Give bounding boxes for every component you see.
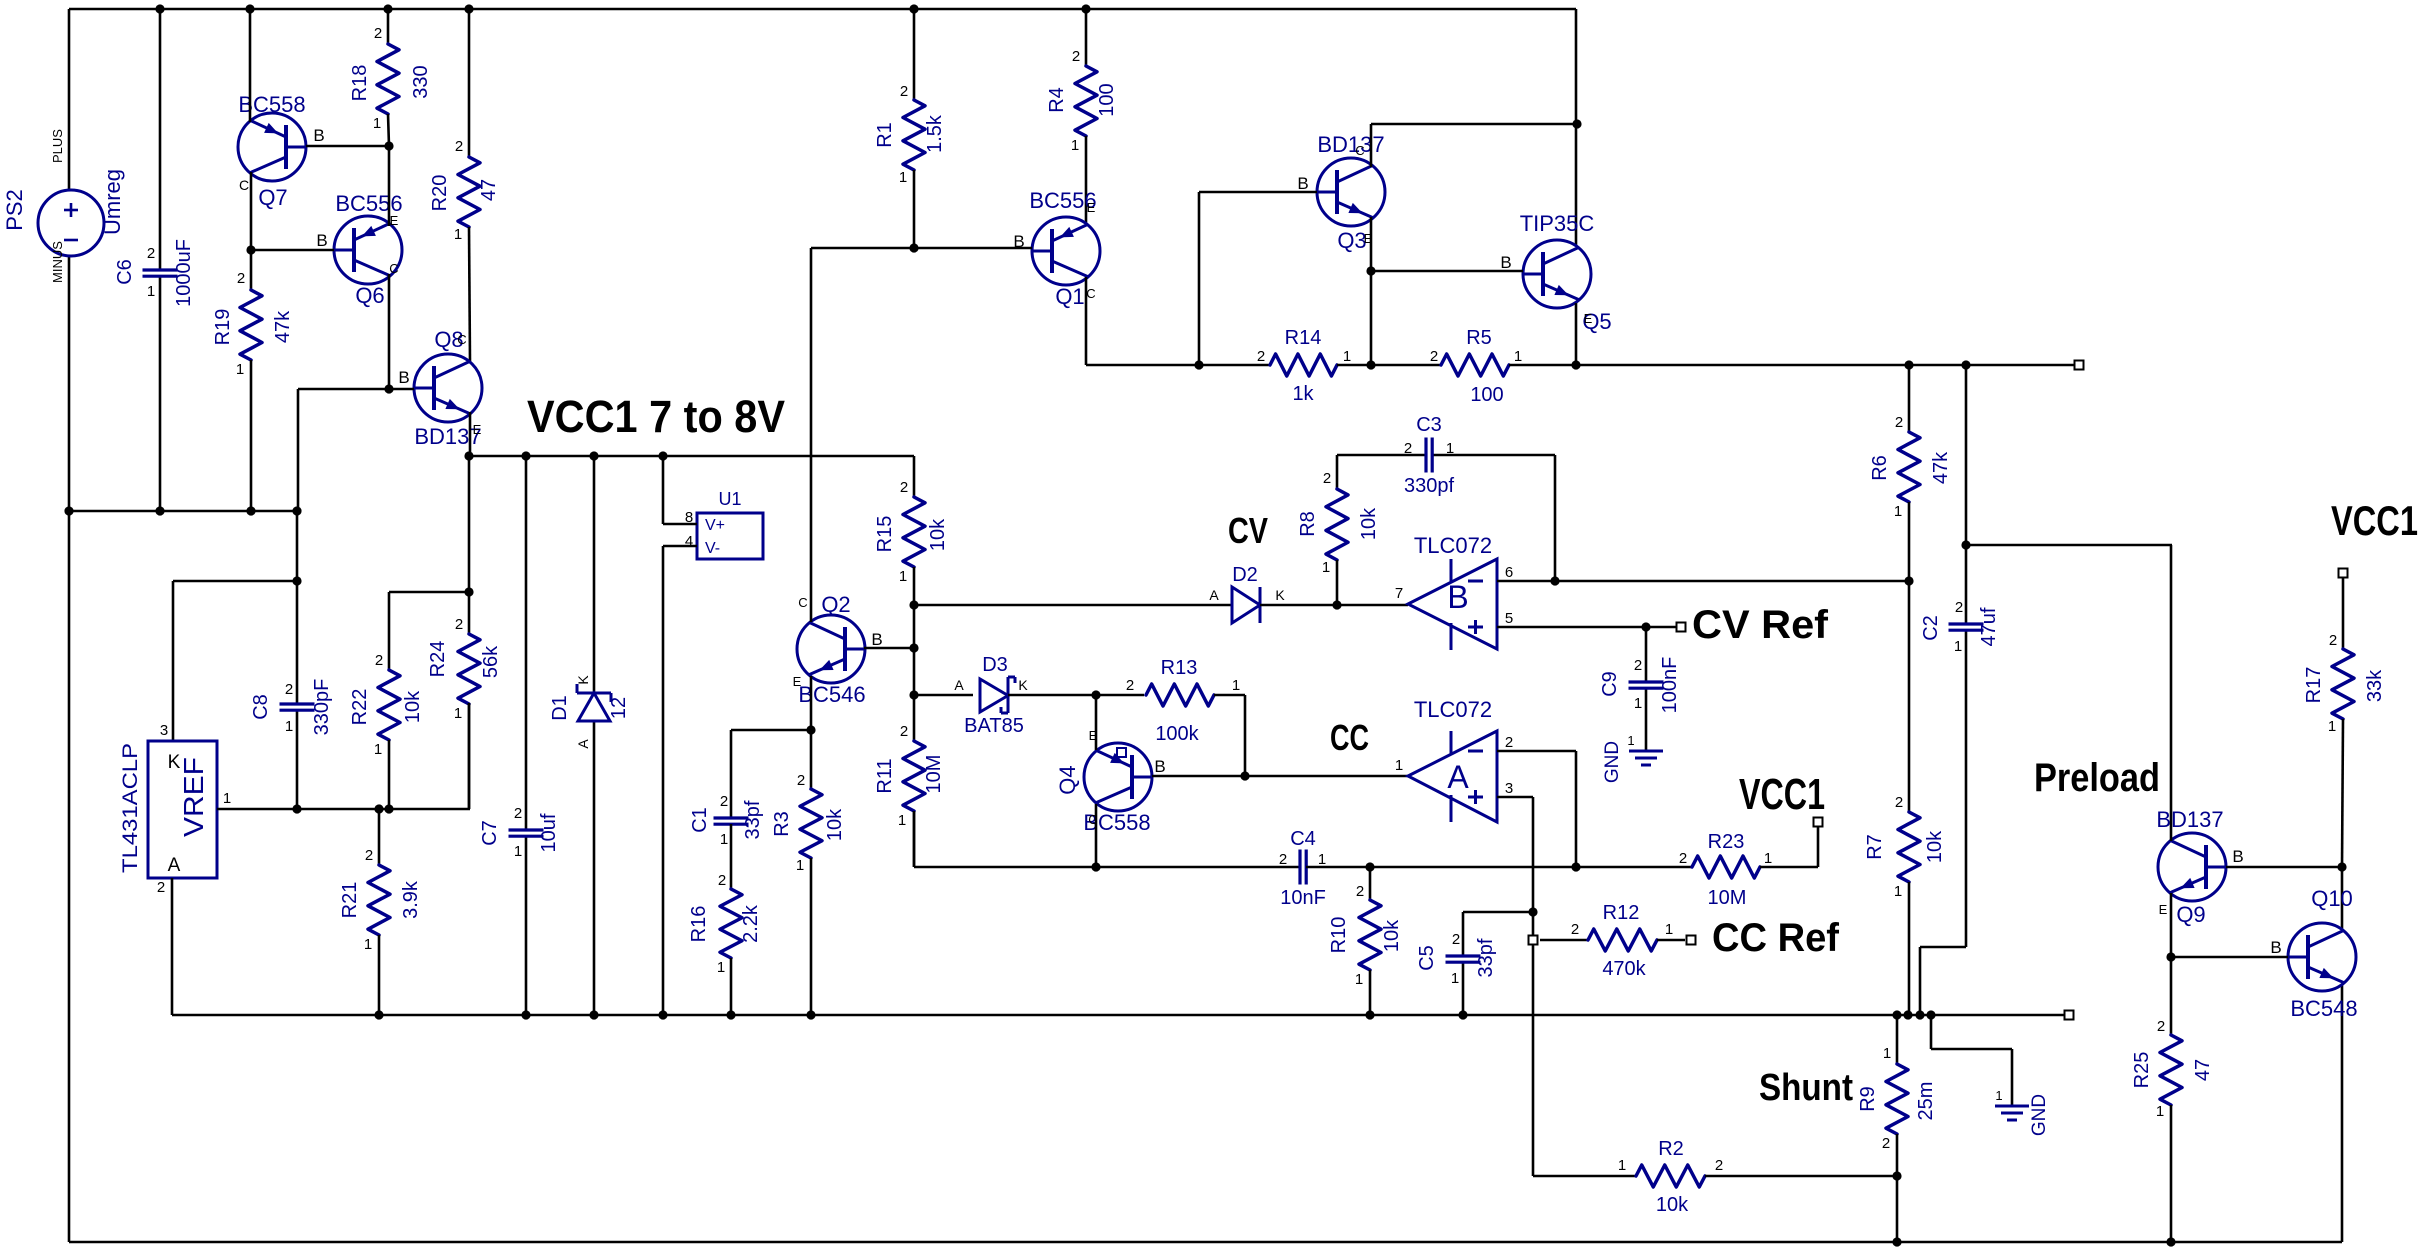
wire Q4 emitter up xyxy=(1095,695,1098,750)
svg-text:2: 2 xyxy=(1895,414,1903,431)
svg-text:BD137: BD137 xyxy=(1317,132,1384,157)
wire Q9 base xyxy=(2226,866,2342,869)
svg-text:3: 3 xyxy=(160,722,168,739)
transistor Q3 BD137 (NPN) xyxy=(1297,132,1385,253)
wire C8 column 511-581 xyxy=(296,511,299,581)
junction top rail Q7e xyxy=(245,4,254,13)
svg-text:B: B xyxy=(1297,174,1308,193)
ground GND (shunt) xyxy=(1995,1088,2050,1136)
wire opamp B pin6 net xyxy=(1497,580,1909,583)
svg-text:1000uF: 1000uF xyxy=(173,239,195,307)
svg-text:33k: 33k xyxy=(2364,669,2386,702)
junction R22/R24 split xyxy=(464,587,473,596)
svg-text:C2: C2 xyxy=(1920,615,1942,641)
svg-text:CC: CC xyxy=(1330,717,1369,758)
resistor R2 10k xyxy=(1618,1138,1723,1216)
svg-text:K: K xyxy=(1275,587,1285,603)
junction Q9e/Q10 base xyxy=(2166,952,2175,961)
svg-text:U1: U1 xyxy=(718,489,741,509)
svg-text:E: E xyxy=(2159,902,2168,917)
transistor Q6 BC556 (PNP) xyxy=(316,191,402,308)
svg-text:33pf: 33pf xyxy=(742,800,764,839)
junction net511 C8 column xyxy=(292,506,301,515)
svg-text:R25: R25 xyxy=(2131,1052,2153,1089)
svg-text:R24: R24 xyxy=(427,641,449,678)
terminal ground bus right xyxy=(2065,1011,2074,1020)
wire C5 top net xyxy=(1463,911,1533,914)
svg-text:2: 2 xyxy=(2157,1018,2165,1035)
svg-text:E: E xyxy=(473,422,482,437)
junction R9/R2 xyxy=(1892,1171,1901,1180)
wire opamp A pin3 net xyxy=(1497,797,1533,1176)
svg-text:1: 1 xyxy=(717,959,725,976)
wire Q6 collector down to Q8 base xyxy=(388,274,391,389)
svg-text:2: 2 xyxy=(1452,931,1460,948)
svg-text:K: K xyxy=(575,675,591,685)
node label Shunt xyxy=(1759,1067,1853,1109)
svg-text:1: 1 xyxy=(223,790,231,807)
capacitor C1 33pf xyxy=(689,730,811,848)
svg-text:47k: 47k xyxy=(1930,451,1952,484)
svg-text:7: 7 xyxy=(1395,585,1403,602)
node label VCC1 right xyxy=(2331,497,2418,544)
capacitor C8 330pF xyxy=(250,581,333,809)
junction C8 top xyxy=(292,576,301,585)
svg-text:2: 2 xyxy=(720,793,728,810)
wire Q9 collector up xyxy=(2170,545,2173,841)
svg-text:R11: R11 xyxy=(874,758,896,793)
svg-text:C: C xyxy=(1086,286,1095,301)
svg-text:10M: 10M xyxy=(923,755,945,794)
svg-text:2: 2 xyxy=(718,872,726,889)
svg-text:B: B xyxy=(316,231,327,250)
wire D2 cathode net xyxy=(1260,604,1408,607)
resistor R7 10k xyxy=(1864,581,1946,1015)
svg-text:A: A xyxy=(1209,587,1219,603)
resistor R14 1k xyxy=(1257,327,1351,405)
svg-text:1: 1 xyxy=(364,936,372,953)
junction gbus R21 xyxy=(374,1010,383,1019)
junction C3 / opamp B out xyxy=(1550,576,1559,585)
svg-text:47: 47 xyxy=(2192,1059,2214,1081)
svg-text:1: 1 xyxy=(1894,883,1902,900)
junction Q7 base / R18 / Q6 emitter xyxy=(384,141,393,150)
svg-text:1: 1 xyxy=(1954,638,1962,655)
resistor R3 10k xyxy=(771,730,846,1015)
wire C2 bottom jog xyxy=(1920,947,1966,1015)
svg-text:C: C xyxy=(239,177,249,193)
junction Q3 collector / main vertical xyxy=(1572,119,1581,128)
svg-text:3: 3 xyxy=(1505,780,1513,797)
terminal CC Ref right xyxy=(1687,936,1696,945)
svg-text:1: 1 xyxy=(1514,348,1522,365)
svg-text:K: K xyxy=(1018,677,1028,693)
junction R9 bottom rail xyxy=(1892,1237,1901,1246)
svg-text:470k: 470k xyxy=(1602,958,1646,980)
svg-text:C7: C7 xyxy=(479,820,501,846)
wire Q8 base corner down (to C8) xyxy=(297,389,300,511)
svg-text:2: 2 xyxy=(455,616,463,633)
resistor R1 1.5k xyxy=(874,9,946,248)
svg-text:1: 1 xyxy=(285,718,293,735)
svg-text:12: 12 xyxy=(608,697,630,719)
svg-text:R17: R17 xyxy=(2303,667,2325,704)
svg-text:C1: C1 xyxy=(689,807,711,833)
terminal VCC1 right xyxy=(2339,569,2348,578)
svg-text:BC548: BC548 xyxy=(2290,996,2357,1021)
wire Q2 emitter down xyxy=(810,676,813,730)
svg-text:10M: 10M xyxy=(1708,887,1747,909)
wire R13 pin1 corner xyxy=(1214,695,1245,776)
capacitor C3 330pf xyxy=(1337,414,1555,497)
junction VCC1 / Q8e / R22R24 xyxy=(464,451,473,460)
svg-text:1: 1 xyxy=(2328,718,2336,735)
svg-text:TL431ACLP: TL431ACLP xyxy=(119,743,142,873)
capacitor C4 10nF xyxy=(1279,828,1326,909)
svg-text:R20: R20 xyxy=(429,175,451,212)
svg-text:R10: R10 xyxy=(1328,917,1350,954)
svg-text:330: 330 xyxy=(410,65,432,98)
wire 365 bus segment C xyxy=(1509,364,2079,367)
svg-text:C5: C5 xyxy=(1416,945,1438,971)
svg-text:1: 1 xyxy=(898,812,906,829)
transistor Q2 BC546 (NPN) xyxy=(793,592,883,707)
svg-text:B: B xyxy=(1500,253,1511,272)
svg-text:VREF: VREF xyxy=(178,757,209,837)
junction net511 C6 xyxy=(155,506,164,515)
svg-text:TLC072: TLC072 xyxy=(1414,697,1492,722)
junction 365/Q3base column xyxy=(1194,360,1203,369)
junction pin1net C8 xyxy=(292,804,301,813)
svg-text:1: 1 xyxy=(1322,559,1330,576)
svg-text:2: 2 xyxy=(157,879,165,896)
wire Q5 base xyxy=(1371,270,1523,273)
svg-text:1k: 1k xyxy=(1292,383,1314,405)
svg-text:1: 1 xyxy=(720,831,728,848)
svg-text:1: 1 xyxy=(1618,1157,1626,1174)
wire TL431 pin2 down xyxy=(171,878,174,1015)
junction top rail R1 xyxy=(909,4,918,13)
svg-text:2: 2 xyxy=(797,772,805,789)
wire VCC1 bus xyxy=(469,455,914,458)
junction C4/opampA pin2 xyxy=(1571,862,1580,871)
wire R2 left xyxy=(1533,1175,1636,1178)
junction R6/R7/pin6net xyxy=(1904,576,1913,585)
svg-text:A: A xyxy=(954,677,964,693)
junction Q9 base / rail xyxy=(2337,862,2346,871)
node label CC xyxy=(1330,717,1369,758)
svg-text:Preload: Preload xyxy=(2034,756,2160,800)
junction pin1net R22 xyxy=(384,804,393,813)
svg-text:10k: 10k xyxy=(1656,1194,1689,1216)
node label CV xyxy=(1228,510,1268,551)
svg-text:1: 1 xyxy=(1627,733,1634,748)
svg-text:47k: 47k xyxy=(272,310,294,343)
junction VCC1 / U1 xyxy=(658,451,667,460)
wire Q3 emitter down xyxy=(1370,217,1373,365)
junction R1 bottom node xyxy=(909,243,918,252)
resistor R12 470k xyxy=(1540,902,1685,980)
svg-text:B: B xyxy=(1154,757,1165,776)
junction net511 left rail xyxy=(64,506,73,515)
svg-text:R4: R4 xyxy=(1046,87,1068,113)
wire opamp B pin5 net xyxy=(1497,626,1677,629)
wire 365 bus segment A xyxy=(1086,364,1270,367)
svg-text:1: 1 xyxy=(2156,1103,2164,1120)
wire R2 right xyxy=(1705,1175,1897,1178)
node label VCC1 (R23) xyxy=(1739,770,1825,819)
svg-text:R23: R23 xyxy=(1708,831,1745,853)
junction C4/R10 xyxy=(1365,862,1374,871)
svg-text:R12: R12 xyxy=(1603,902,1640,924)
wire Q4 collector down xyxy=(1095,804,1098,867)
node label CV Ref xyxy=(1692,603,1829,647)
svg-text:BD137: BD137 xyxy=(414,424,481,449)
wire Q7 collector down xyxy=(250,172,253,250)
svg-text:CV Ref: CV Ref xyxy=(1692,603,1829,647)
wire Q5 emitter down xyxy=(1575,303,1578,365)
resistor R22 10k xyxy=(349,592,424,809)
junction top rail R4 xyxy=(1081,4,1090,13)
svg-text:C: C xyxy=(389,261,398,276)
wire ground bus xyxy=(172,1014,2069,1017)
resistor R25 47 xyxy=(2131,1018,2214,1242)
junction gbus U1pin4 xyxy=(658,1010,667,1019)
resistor R16 2.2k xyxy=(688,824,762,1015)
svg-text:R7: R7 xyxy=(1864,834,1886,860)
svg-text:C9: C9 xyxy=(1599,671,1621,697)
svg-text:BAT85: BAT85 xyxy=(964,715,1024,737)
svg-text:Q1: Q1 xyxy=(1055,284,1084,309)
node label Preload xyxy=(2034,756,2160,800)
svg-text:R6: R6 xyxy=(1869,455,1891,481)
junction gbus R3 xyxy=(806,1010,815,1019)
junction gbus D1 xyxy=(589,1010,598,1019)
junction VCC1 / D1 xyxy=(589,451,598,460)
resistor R24 56k xyxy=(427,592,502,809)
svg-text:R3: R3 xyxy=(771,811,793,837)
junction R25 bottom rail xyxy=(2166,1237,2175,1246)
terminal CV Ref xyxy=(1677,623,1686,632)
svg-text:1: 1 xyxy=(1764,850,1772,867)
svg-text:3.9k: 3.9k xyxy=(400,880,422,919)
transistor Q10 BC548 (NPN) xyxy=(2270,886,2357,1021)
svg-text:10uf: 10uf xyxy=(538,813,560,852)
wire Q1 collector down xyxy=(1085,277,1088,365)
svg-text:C8: C8 xyxy=(250,694,272,720)
svg-text:1: 1 xyxy=(373,115,381,132)
svg-text:2: 2 xyxy=(1571,921,1579,938)
IC U1 (op-amp power V+/V-) xyxy=(685,489,763,559)
wire Q3 collector top xyxy=(1371,124,1577,167)
svg-text:PLUS: PLUS xyxy=(50,129,65,163)
junction gbus R9 xyxy=(1892,1010,1901,1019)
svg-text:1: 1 xyxy=(1446,440,1454,457)
diode D2 xyxy=(1209,564,1285,623)
svg-text:2: 2 xyxy=(237,270,245,287)
capacitor C6 1000uF xyxy=(114,9,195,511)
wire Q7 emitter to rail xyxy=(249,9,252,122)
svg-text:100k: 100k xyxy=(1155,723,1199,745)
svg-text:C3: C3 xyxy=(1416,414,1442,436)
svg-text:2: 2 xyxy=(1356,883,1364,900)
terminal 365 right xyxy=(2075,361,2084,370)
resistor R11 10M xyxy=(874,605,945,867)
wire U1 pin4 xyxy=(663,546,697,1015)
svg-text:C4: C4 xyxy=(1290,828,1316,850)
wire Q4 base to opamp A xyxy=(1152,775,1408,778)
svg-text:2: 2 xyxy=(1505,734,1513,751)
svg-text:Q4: Q4 xyxy=(1055,765,1080,794)
transistor Q9 BD137 (NPN, mirrored) xyxy=(2156,807,2243,927)
svg-text:330pF: 330pF xyxy=(311,679,333,736)
svg-text:D1: D1 xyxy=(549,695,571,721)
svg-text:2: 2 xyxy=(1634,657,1642,674)
junction preload top xyxy=(1961,540,1970,549)
wire 365 bus segment B xyxy=(1337,364,1441,367)
svg-text:CV: CV xyxy=(1228,510,1268,551)
junction Q7 collector / Q6 base / R19 xyxy=(246,245,255,254)
resistor R6 47k xyxy=(1869,365,1952,581)
junction net511 R19 xyxy=(246,506,255,515)
junction Q8 base / Q6 collector xyxy=(384,384,393,393)
wire C4 net right xyxy=(1306,866,1692,869)
capacitor C9 100nF xyxy=(1599,627,1681,751)
svg-text:2: 2 xyxy=(1715,1157,1723,1174)
svg-text:2: 2 xyxy=(285,681,293,698)
svg-text:D3: D3 xyxy=(982,654,1008,676)
resistor R9 25m (shunt) xyxy=(1857,1015,1937,1242)
svg-text:C: C xyxy=(1355,143,1364,158)
svg-text:B: B xyxy=(2270,938,2281,957)
wire Q8 emitter to VCC1 bus xyxy=(469,412,472,456)
op-amp U1B TLC072 xyxy=(1395,533,1513,650)
resistor R18 330 xyxy=(349,9,432,146)
svg-text:B: B xyxy=(313,126,324,145)
resistor R13 100k xyxy=(1126,657,1240,745)
wire K-net to TL431 xyxy=(173,581,297,741)
wire C2 column xyxy=(1965,365,1968,947)
svg-text:1: 1 xyxy=(1232,677,1240,694)
power source PS2 Umreg xyxy=(2,129,125,283)
svg-text:Q9: Q9 xyxy=(2176,902,2205,927)
wire GND stub xyxy=(1931,1015,2012,1106)
svg-text:R19: R19 xyxy=(212,309,234,346)
svg-text:4: 4 xyxy=(685,533,693,550)
svg-text:2: 2 xyxy=(375,652,383,669)
junction pin5 / C9 xyxy=(1641,622,1650,631)
junction gbus R7 xyxy=(1903,1010,1912,1019)
junction gbus C7 xyxy=(521,1010,530,1019)
wire bottom rail xyxy=(69,1241,2342,1244)
svg-text:V+: V+ xyxy=(705,517,725,534)
junction R15/D2 node xyxy=(909,600,918,609)
junction VCC1 / C7 xyxy=(521,451,530,460)
wire R23 pin1 to VCC1 terminal xyxy=(1760,822,1818,867)
svg-text:VCC1: VCC1 xyxy=(1739,770,1825,819)
junction top rail C6 xyxy=(155,4,164,13)
transistor Q7 BC558 (PNP) xyxy=(238,92,325,210)
junction Q2 base node xyxy=(909,643,918,652)
junction top rail R18 xyxy=(383,4,392,13)
svg-text:2: 2 xyxy=(455,138,463,155)
svg-text:2: 2 xyxy=(374,25,382,42)
svg-text:1.5k: 1.5k xyxy=(924,114,946,153)
diode D3 BAT85 (schottky) xyxy=(954,654,1028,737)
wire Q9 emitter down xyxy=(2170,893,2173,1035)
svg-text:VCC1 7 to 8V: VCC1 7 to 8V xyxy=(527,391,785,442)
svg-text:10k: 10k xyxy=(927,518,949,551)
junction D3K/R13/Q4e xyxy=(1091,690,1100,699)
svg-text:Q10: Q10 xyxy=(2311,886,2353,911)
wire Q10 base xyxy=(2171,956,2288,959)
svg-text:33pf: 33pf xyxy=(1475,938,1497,977)
svg-text:R8: R8 xyxy=(1297,511,1319,537)
svg-text:B: B xyxy=(1447,579,1468,615)
svg-text:1: 1 xyxy=(1395,757,1403,774)
pin marker Q4 emitter xyxy=(1117,748,1126,757)
svg-text:E: E xyxy=(1584,311,1593,326)
svg-text:1: 1 xyxy=(1995,1088,2002,1103)
svg-text:VCC1: VCC1 xyxy=(2331,497,2418,544)
svg-text:B: B xyxy=(2232,847,2243,866)
wire D3 anode net xyxy=(914,694,973,697)
svg-text:47: 47 xyxy=(478,179,500,201)
svg-text:2: 2 xyxy=(514,805,522,822)
svg-text:1: 1 xyxy=(1343,348,1351,365)
junction pin1net R21 xyxy=(374,804,383,813)
svg-text:1: 1 xyxy=(1451,970,1459,987)
svg-text:BC546: BC546 xyxy=(798,682,865,707)
svg-text:1: 1 xyxy=(147,283,155,300)
svg-text:E: E xyxy=(1087,200,1096,215)
wire Q6 emitter up xyxy=(388,146,391,226)
svg-text:1: 1 xyxy=(1355,971,1363,988)
junction 365/R6 xyxy=(1904,360,1913,369)
svg-text:100: 100 xyxy=(1096,83,1118,116)
wire Q6 base left xyxy=(251,249,334,252)
junction gbus R10 xyxy=(1365,1010,1374,1019)
svg-text:A: A xyxy=(575,739,591,749)
junction gbus R16 xyxy=(726,1010,735,1019)
svg-text:PS2: PS2 xyxy=(2,189,27,231)
junction gbus C5 xyxy=(1458,1010,1467,1019)
svg-text:Q3: Q3 xyxy=(1337,228,1366,253)
wire Q2 base xyxy=(864,647,914,650)
svg-text:1: 1 xyxy=(374,741,382,758)
wire D3 cathode net xyxy=(1008,694,1144,697)
svg-text:C6: C6 xyxy=(114,259,136,285)
svg-text:47uf: 47uf xyxy=(1978,607,2000,646)
diode D1 12 (zener) xyxy=(549,456,630,1015)
svg-text:1: 1 xyxy=(454,705,462,722)
svg-text:2: 2 xyxy=(900,83,908,100)
svg-text:2: 2 xyxy=(1404,440,1412,457)
svg-text:1: 1 xyxy=(454,226,462,243)
svg-text:1: 1 xyxy=(514,843,522,860)
svg-text:10k: 10k xyxy=(402,690,424,723)
wire C3 right down xyxy=(1554,455,1557,581)
svg-text:2: 2 xyxy=(365,847,373,864)
svg-text:B: B xyxy=(871,630,882,649)
svg-text:A: A xyxy=(168,855,181,876)
svg-text:1: 1 xyxy=(1318,851,1326,868)
svg-text:330pf: 330pf xyxy=(1404,475,1454,497)
resistor R17 33k xyxy=(2303,577,2386,867)
terminal VCC1 (R23) xyxy=(1814,818,1823,827)
capacitor C2 47uf xyxy=(1920,599,2000,655)
svg-text:2: 2 xyxy=(1279,851,1287,868)
